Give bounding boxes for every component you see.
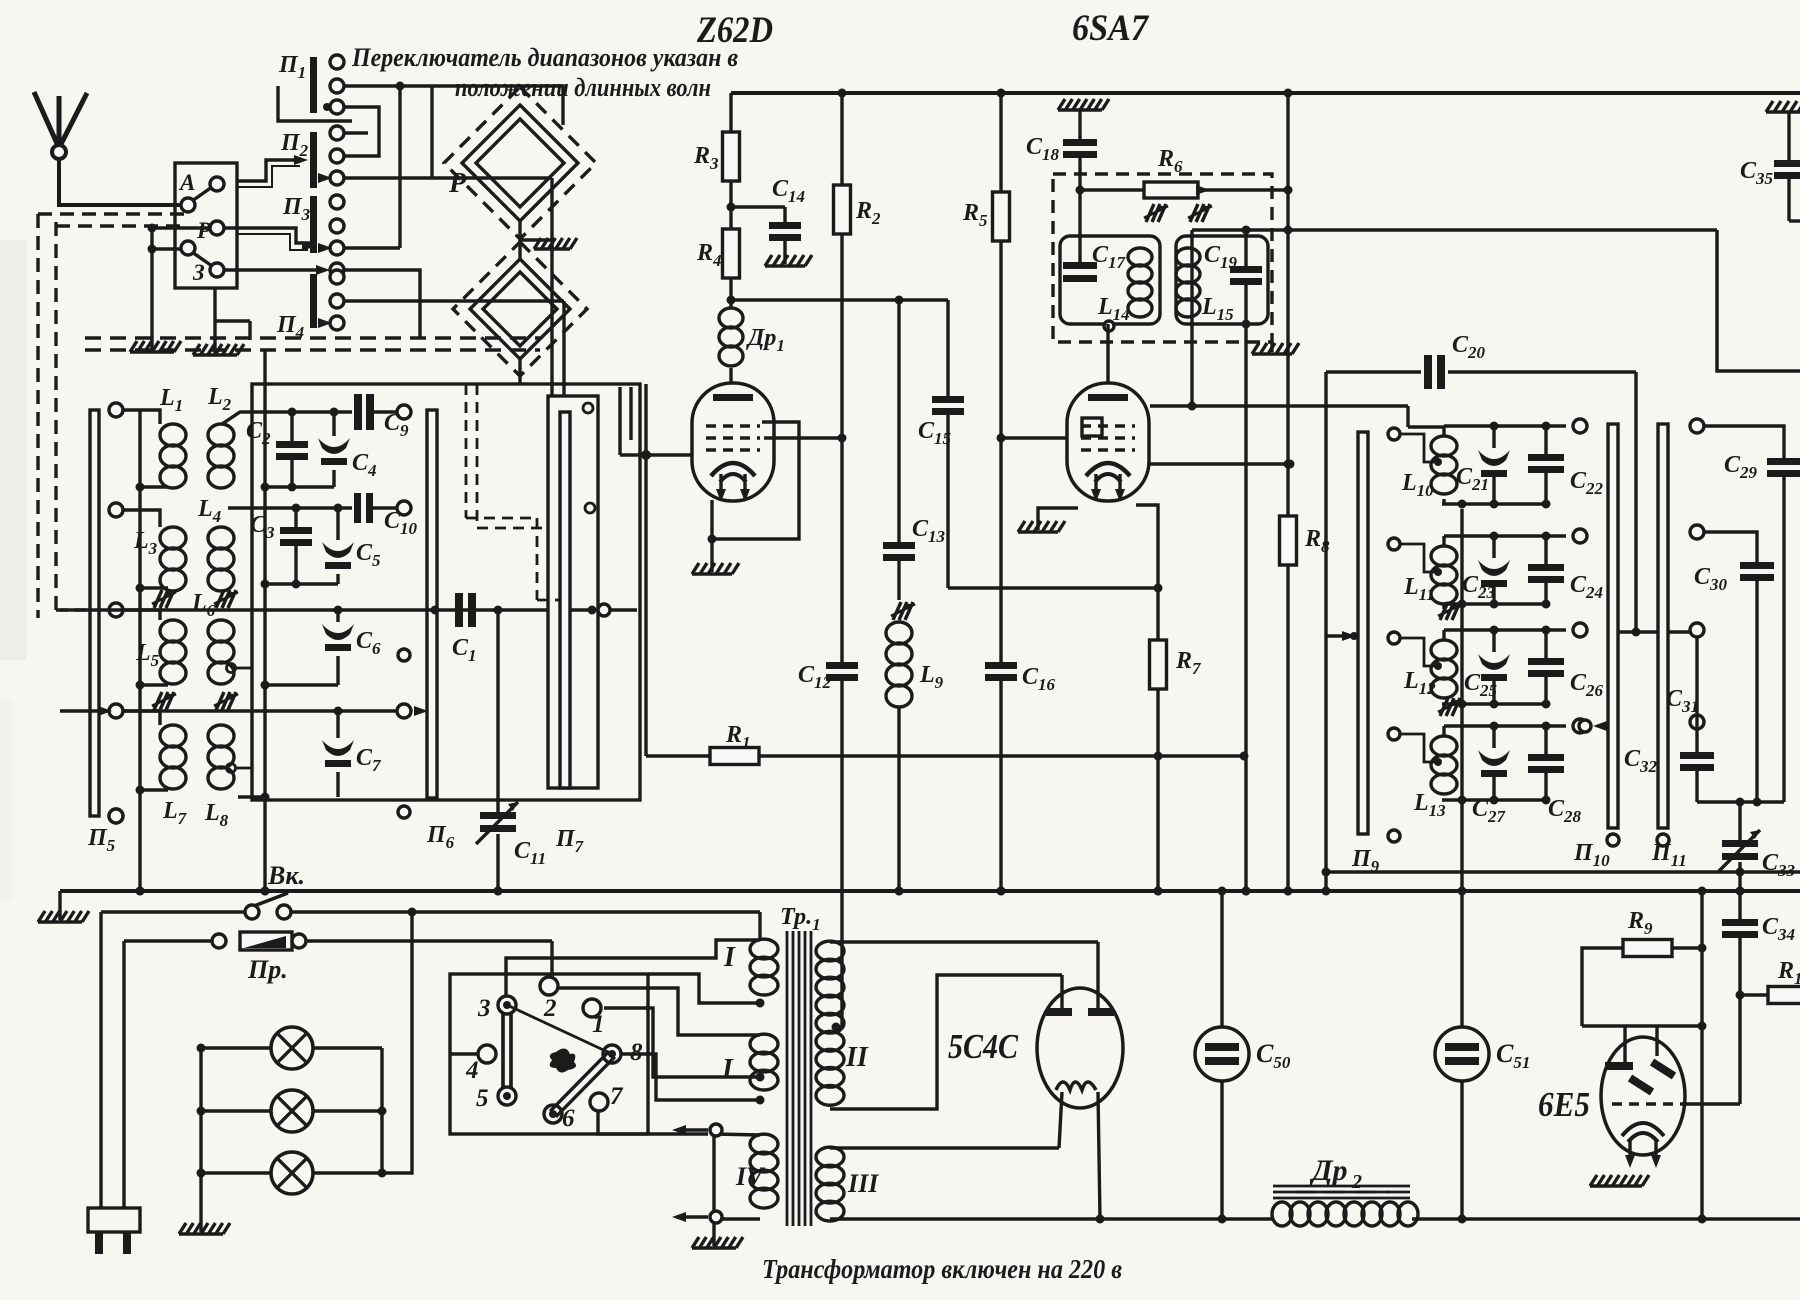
svg-text:положении длинных волн: положении длинных волн <box>455 73 711 102</box>
svg-text:Вк.: Вк. <box>267 861 305 890</box>
svg-text:1: 1 <box>592 1011 605 1038</box>
svg-text:3: 3 <box>477 995 491 1022</box>
svg-text:А: А <box>178 170 195 195</box>
svg-text:Трансформатор включен на 22: Трансформатор включен на 220 в <box>762 1254 1122 1284</box>
svg-text:З: З <box>192 260 205 285</box>
svg-text:5С4С: 5С4С <box>948 1027 1019 1066</box>
svg-text:4: 4 <box>465 1057 479 1084</box>
svg-text:2: 2 <box>543 995 557 1022</box>
svg-text:6Е5: 6Е5 <box>1538 1085 1590 1124</box>
svg-text:II: II <box>845 1042 869 1073</box>
svg-text:5: 5 <box>476 1085 489 1112</box>
svg-text:Р: Р <box>196 218 212 243</box>
svg-text:Др: Др <box>1309 1154 1348 1187</box>
svg-text:I: I <box>723 942 736 973</box>
svg-text:Переключатель диапазонов указа: Переключатель диапазонов указан в <box>351 43 738 72</box>
svg-text:Пр.: Пр. <box>247 955 288 984</box>
svg-text:I: I <box>721 1054 734 1085</box>
svg-text:Z62D: Z62D <box>696 10 773 51</box>
svg-text:6SA7: 6SA7 <box>1072 8 1149 49</box>
svg-text:7: 7 <box>610 1083 624 1110</box>
svg-text:IV: IV <box>735 1162 766 1191</box>
svg-text:III: III <box>847 1169 879 1198</box>
svg-text:2: 2 <box>1351 1171 1362 1193</box>
svg-text:Р: Р <box>448 168 467 199</box>
